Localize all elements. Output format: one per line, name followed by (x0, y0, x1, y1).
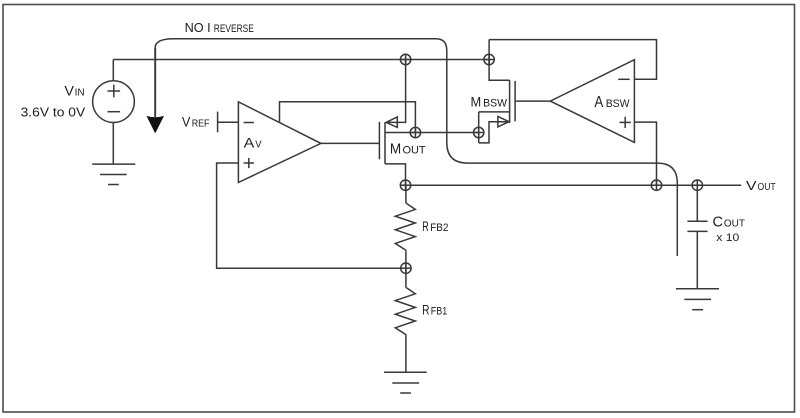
svg-text:V: V (746, 178, 757, 193)
svg-text:BSW: BSW (483, 97, 507, 109)
transistor Q2 MBSW gate bar (514, 81, 516, 122)
wire MOUT drain from top rail (386, 60, 406, 123)
node junction J4 (474, 127, 484, 137)
voltage source VIN (93, 81, 135, 123)
wire NO IREVERSE annotation path (155, 39, 677, 256)
wire RFB2 top lead (405, 185, 407, 203)
node junction J7 (692, 180, 702, 190)
transistor Q1 MOUT gate bar (378, 122, 380, 160)
op-amp U2 ABSW (points left) (550, 60, 634, 143)
arrowhead of NO IREVERSE (147, 116, 164, 133)
ground (RFB1) (384, 372, 427, 393)
wire MBSW source step (479, 122, 509, 143)
arrow of MOUT (points left into channel) (386, 117, 397, 128)
transistor Q2 MBSW channel bar (509, 80, 511, 123)
transistor Q2 MBSW drain path from rail (489, 40, 510, 81)
svg-text:R: R (422, 302, 429, 318)
svg-text:x 10: x 10 (716, 232, 739, 244)
wire VOUT rail (406, 184, 742, 186)
node junction J2 (484, 54, 494, 64)
VREF port bar (217, 112, 219, 133)
ground (VIN) (92, 164, 135, 184)
svg-text:OUT: OUT (758, 182, 776, 193)
wire COUT ground lead (696, 231, 698, 288)
svg-text:C: C (713, 215, 724, 231)
wire MBSW gate to ABSW output (515, 100, 550, 102)
node junction J5 (400, 180, 410, 190)
wire top supply rail (113, 59, 489, 61)
svg-text:REVERSE: REVERSE (214, 23, 254, 35)
wire MOUT source down to VOUT rail (385, 164, 406, 185)
node junction J6 (651, 180, 661, 190)
wire RFB1 ground lead (405, 335, 407, 373)
wire COUT top lead (696, 185, 698, 221)
svg-text:OUT: OUT (403, 144, 426, 156)
wire VIN top lead (112, 60, 114, 81)
svg-text:V: V (64, 84, 74, 99)
svg-text:A: A (594, 94, 603, 111)
op-amp U1 AV (238, 102, 321, 183)
node junction J1 (400, 54, 410, 64)
wire MOUT body node row (385, 132, 479, 134)
svg-text:IN: IN (75, 88, 85, 99)
wire VIN bottom lead (112, 123, 114, 165)
wire VREF to AV minus input (218, 121, 239, 123)
svg-text:M: M (390, 140, 401, 157)
svg-text:BSW: BSW (606, 98, 630, 110)
wire ABSW minus feedback loop (489, 40, 656, 80)
svg-text:3.6V to 0V: 3.6V to 0V (21, 105, 86, 120)
ground (COUT) (676, 289, 719, 310)
wire AV output to MOUT gate (321, 142, 380, 144)
svg-text:FB2: FB2 (430, 222, 448, 234)
node junction J3 (410, 127, 420, 137)
svg-text:FB1: FB1 (431, 306, 448, 318)
wire MBSW body stub (479, 111, 510, 113)
resistor R1 RFB2 (395, 203, 415, 250)
wire RFB2 bottom lead (405, 250, 407, 268)
node junction J8 (401, 263, 411, 273)
wire AV feedback to MOUT body node (280, 102, 416, 133)
wire ABSW plus input down to VOUT rail (634, 122, 656, 185)
wire arrow shaft of NO IREVERSE (154, 48, 156, 117)
svg-text:V: V (255, 140, 262, 151)
wire AV plus input feedback from RFB node (217, 163, 406, 268)
transistor Q1 MOUT channel bar (384, 122, 386, 164)
svg-text:OUT: OUT (724, 219, 745, 230)
svg-text:A: A (244, 136, 255, 151)
capacitor C1 COUT (687, 221, 707, 231)
wire MBSW body/source vertical (478, 112, 480, 143)
svg-text:REF: REF (192, 119, 210, 130)
svg-text:NO I: NO I (185, 20, 211, 35)
svg-text:M: M (471, 93, 482, 109)
svg-text:R: R (422, 218, 429, 234)
resistor R2 RFB1 (395, 287, 415, 334)
arrow of MBSW (points right into channel) (498, 116, 509, 127)
wire RFB1 top lead (405, 268, 407, 287)
svg-text:V: V (182, 115, 191, 130)
